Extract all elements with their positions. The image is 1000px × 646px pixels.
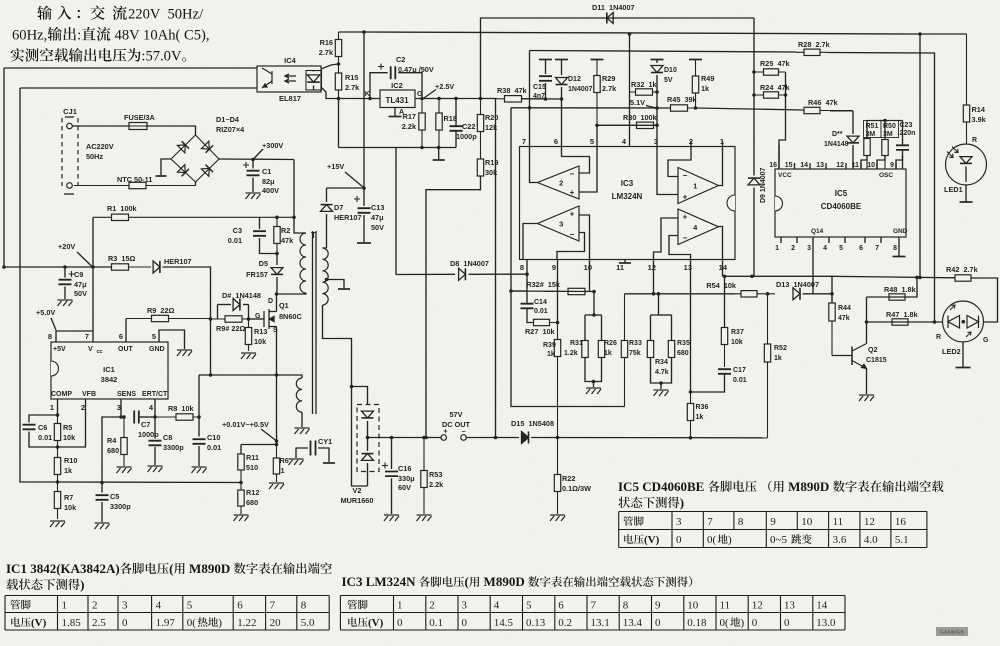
capacitor CY1: [311, 441, 316, 456]
junction R34 loop: [657, 292, 661, 296]
capacitor C15 plates: [539, 76, 552, 81]
svg-text:0(: 0(: [720, 617, 730, 629]
junction R5/C6/VFB: [56, 445, 60, 449]
wire: [254, 149, 264, 159]
LED1 chip: [960, 157, 972, 164]
svg-text:1k: 1k: [64, 466, 73, 475]
wire: [828, 237, 830, 243]
svg-text:11: 11: [852, 162, 860, 169]
resistor R54 10k: [735, 293, 775, 295]
transformer core: [313, 231, 317, 414]
terminal R49 top: [689, 59, 702, 61]
svg-text:7: 7: [85, 332, 89, 341]
capacitor C7 1000p: [134, 411, 139, 424]
title text line 1: [37, 6, 52, 20]
wire: [691, 374, 725, 392]
svg-text:6: 6: [859, 245, 863, 252]
svg-text:+300V: +300V: [262, 141, 283, 150]
svg-text:50V: 50V: [371, 223, 384, 232]
wire: [844, 237, 846, 243]
node K column: [337, 97, 341, 101]
junction sense riser: [494, 436, 498, 440]
svg-text:0.01: 0.01: [207, 443, 221, 452]
svg-text:FR157: FR157: [246, 270, 268, 279]
diode D5 FR157: [271, 268, 283, 275]
wire: [339, 147, 457, 149]
wire: [396, 273, 455, 275]
svg-text:HER107: HER107: [164, 257, 192, 266]
svg-text:EL817: EL817: [279, 94, 301, 103]
ground under R6: [269, 483, 284, 489]
svg-text:Q1: Q1: [279, 301, 289, 310]
junction R32/D10: [655, 90, 659, 94]
svg-text:10k: 10k: [63, 433, 76, 442]
svg-text:48V 10Ah( C5),: 48V 10Ah( C5),: [111, 28, 210, 44]
junction ground stub: [437, 146, 441, 150]
wire: [352, 387, 368, 487]
svg-text:0.01: 0.01: [38, 433, 52, 442]
wire: [327, 187, 365, 189]
svg-text:TL431: TL431: [385, 96, 409, 105]
svg-text:R49: R49: [701, 74, 714, 83]
junction secondary tap: [325, 278, 329, 282]
wire: [876, 163, 878, 169]
wire: [276, 277, 278, 294]
svg-text:D12: D12: [568, 76, 581, 83]
svg-text:R34: R34: [655, 359, 668, 366]
diode D13 1N4007: [793, 288, 800, 300]
svg-text:11: 11: [720, 600, 731, 612]
diode V2a MUR1660: [362, 411, 374, 418]
svg-text:R27 10k: R27 10k: [525, 327, 556, 336]
op-amp IC3-1: [678, 168, 719, 204]
wire: [669, 236, 691, 260]
wire: [530, 147, 538, 183]
svg-text:M890D: M890D: [785, 479, 833, 494]
svg-text:1: 1: [50, 403, 54, 412]
wire: [624, 260, 626, 263]
wire: [4, 67, 257, 69]
resistor R12 680: [240, 483, 242, 515]
diode D** 1N4148: [847, 136, 859, 143]
wire: [217, 305, 219, 320]
V2 module dashed outline: [357, 405, 379, 472]
svg-text:R8 10k: R8 10k: [168, 404, 194, 413]
resistor R36 1k: [690, 392, 692, 438]
wire: [72, 125, 80, 127]
svg-text:12: 12: [648, 263, 656, 272]
wire: [154, 447, 156, 465]
wire: [589, 260, 591, 292]
wire: [218, 304, 232, 306]
svg-text:510: 510: [246, 463, 258, 472]
svg-text:R53: R53: [429, 470, 442, 479]
node G: [420, 97, 424, 101]
wire: [809, 163, 811, 169]
svg-text:3842: 3842: [101, 375, 118, 384]
wire: [394, 108, 396, 117]
diode D12: [556, 78, 568, 85]
svg-text:3: 3: [559, 220, 563, 229]
svg-text:5.1V: 5.1V: [630, 98, 645, 107]
ground under C9: [58, 300, 73, 306]
svg-text:9: 9: [552, 263, 556, 272]
svg-text:COMP: COMP: [51, 391, 72, 398]
wire: [199, 375, 302, 378]
capacitor C17 0.01: [718, 369, 731, 374]
resistor R10 1k: [57, 447, 59, 482]
diode V2b MUR1660: [362, 454, 374, 461]
dashed connector outline: [62, 118, 78, 186]
svg-text:8: 8: [738, 516, 744, 528]
svg-text:0.01: 0.01: [534, 308, 548, 315]
wire: [120, 399, 122, 417]
wire: [898, 243, 900, 256]
svg-text:R13: R13: [254, 327, 267, 336]
svg-text:C7: C7: [141, 420, 150, 429]
svg-text:50Hz: 50Hz: [86, 152, 103, 161]
svg-text:11: 11: [616, 263, 624, 272]
svg-text:1: 1: [281, 466, 285, 475]
wire: [651, 358, 672, 383]
wire: [3, 68, 5, 267]
svg-text:D11 1N4007: D11 1N4007: [592, 3, 635, 12]
wire: [660, 383, 662, 389]
wire: [656, 92, 658, 125]
svg-text:OSC: OSC: [879, 172, 893, 179]
wire: [154, 399, 156, 417]
resistor R44 47k: [831, 294, 833, 356]
wire: [92, 267, 94, 342]
svg-text:1: 1: [775, 245, 779, 252]
wire: [753, 18, 755, 176]
wire: [651, 294, 659, 315]
wire: [778, 163, 780, 169]
wire: [154, 417, 156, 438]
terminal CJ1 neutral: [67, 183, 73, 189]
wire: [363, 188, 365, 206]
wire: [101, 483, 103, 493]
svg-text:D8 1N4007: D8 1N4007: [450, 259, 489, 268]
op-amp IC3-2: [538, 166, 580, 199]
svg-text:+: +: [570, 210, 575, 219]
bridge diode D1: [177, 145, 185, 153]
wire: [561, 60, 563, 76]
wire: [719, 227, 723, 260]
wire: [398, 73, 422, 99]
svg-text:8: 8: [301, 600, 307, 612]
wire: [125, 319, 127, 343]
svg-text:R28 2.7k: R28 2.7k: [798, 40, 831, 49]
svg-text:47μ: 47μ: [74, 280, 87, 289]
wire: [866, 369, 868, 395]
wire: [77, 252, 92, 267]
resistor R22 0.1/3W: [557, 438, 559, 515]
svg-text:2: 2: [81, 403, 85, 412]
wire: [352, 387, 368, 405]
wire: [92, 217, 94, 267]
IC1 notch: [51, 361, 59, 376]
wire: [545, 83, 547, 99]
terminal bottom rail: [433, 159, 445, 161]
junction R53: [422, 436, 426, 440]
wire: [338, 99, 340, 148]
junction D9 column: [750, 275, 754, 279]
resistor R45 39k: [657, 107, 696, 109]
svg-text:R22: R22: [562, 474, 575, 483]
junction C15: [544, 97, 548, 101]
cell 管脚: [10, 600, 30, 610]
wire: [867, 321, 944, 323]
svg-text:VCC: VCC: [778, 172, 792, 179]
terminal underline: [64, 193, 74, 195]
svg-text:R26: R26: [604, 340, 617, 347]
IC3 voltage table: [340, 596, 845, 631]
svg-text:3: 3: [676, 516, 682, 528]
capacitor C2 0.47u/50V: [391, 66, 396, 79]
wire: [860, 163, 862, 169]
svg-text:1.97: 1.97: [156, 617, 176, 629]
resistor R3 15: [112, 266, 152, 268]
svg-text:680: 680: [246, 498, 258, 507]
svg-text:IC5: IC5: [835, 189, 848, 198]
wire: [321, 87, 338, 99]
junction R30 left: [595, 124, 599, 128]
svg-text:R1 100k: R1 100k: [107, 204, 138, 213]
svg-text:3.9k: 3.9k: [972, 115, 987, 124]
svg-text:R18: R18: [444, 114, 457, 123]
wire: [511, 107, 671, 109]
svg-text:R20: R20: [485, 113, 498, 122]
svg-text:7: 7: [270, 600, 276, 612]
svg-text:GND: GND: [893, 228, 908, 235]
svg-text:7: 7: [522, 137, 526, 146]
wire: [753, 188, 755, 277]
resistor R42 2.7k: [955, 277, 971, 279]
bridge diode D3b: [177, 165, 185, 173]
svg-text:+5.0V: +5.0V: [36, 308, 55, 317]
junction top rail riser: [918, 276, 922, 280]
wire: [585, 358, 602, 382]
svg-text:6: 6: [554, 137, 558, 146]
svg-text:R: R: [936, 334, 941, 341]
svg-text:D10: D10: [664, 67, 677, 74]
svg-text:R17: R17: [403, 112, 416, 121]
junction R52: [766, 292, 770, 296]
wire: [861, 156, 867, 170]
node 5.1V: [655, 106, 659, 110]
svg-text:13: 13: [816, 162, 824, 169]
svg-text:2: 2: [791, 245, 795, 252]
svg-text:7: 7: [707, 516, 713, 528]
svg-text:330μ: 330μ: [398, 474, 415, 483]
svg-text:V2: V2: [353, 486, 362, 495]
svg-text:8: 8: [893, 245, 897, 252]
IC4 internal LED: [307, 75, 319, 82]
svg-text:13.0: 13.0: [816, 617, 836, 629]
resistor R29 2.7k: [596, 60, 598, 126]
wire: [64, 267, 66, 278]
resistor R2 47k: [276, 217, 278, 253]
resistor R1 100k: [93, 216, 294, 218]
IC3 LM324N body: [520, 147, 736, 260]
wire: [780, 237, 782, 243]
wire: [779, 72, 786, 169]
LED2 arrows: [950, 305, 971, 337]
svg-text:1000p: 1000p: [456, 132, 477, 141]
svg-text:R29: R29: [602, 74, 615, 83]
junction C22: [454, 97, 458, 101]
svg-text:2.7k: 2.7k: [345, 83, 360, 92]
transformer secondary winding: [323, 248, 329, 305]
resistor R26 1k: [601, 340, 603, 358]
svg-text:15: 15: [785, 162, 793, 169]
resistor R38 47k: [497, 98, 546, 100]
svg-text:0: 0: [784, 617, 790, 629]
capacitor C8 3300p: [149, 441, 162, 446]
wire: [57, 399, 59, 415]
svg-text:V: V: [88, 346, 93, 353]
wire: [326, 188, 328, 202]
wire: [276, 254, 278, 266]
wire: [596, 125, 598, 146]
wire: [656, 60, 658, 64]
svg-text:C1: C1: [262, 167, 271, 176]
svg-text:R39: R39: [543, 342, 556, 349]
wire: [832, 355, 852, 357]
resistor R9 22: [126, 318, 211, 320]
wire: [597, 124, 657, 126]
wire: [971, 278, 998, 322]
svg-text:2: 2: [429, 600, 435, 612]
transformer aux winding: [296, 378, 302, 412]
svg-text:10: 10: [867, 162, 875, 169]
zener D10: [651, 66, 663, 73]
resistor R5 10k: [57, 415, 59, 447]
svg-text:R33: R33: [629, 340, 642, 347]
junction R32#/R31 loop: [592, 290, 596, 294]
secondary tap terminal: [338, 288, 350, 290]
terminal R29 top: [591, 59, 604, 61]
svg-text:C13: C13: [371, 203, 384, 212]
svg-text:5.0: 5.0: [301, 617, 315, 629]
svg-text:1000p: 1000p: [138, 430, 159, 439]
svg-text:6: 6: [558, 600, 564, 612]
wire: [210, 319, 212, 375]
svg-text:0.13: 0.13: [526, 617, 546, 629]
wire: [511, 290, 594, 293]
cell 电压(V): [624, 534, 643, 544]
svg-text:R15: R15: [345, 73, 358, 82]
junction R16/R15/IC4: [337, 62, 341, 66]
wire: [523, 224, 538, 260]
wire: [313, 86, 315, 91]
resistor R4 680: [123, 417, 125, 466]
wire: [313, 71, 315, 72]
wire: [796, 237, 798, 243]
bridge diode D4b: [201, 168, 209, 176]
wire: [363, 215, 365, 242]
capacitor C6 0.01: [23, 425, 36, 430]
bridge left terminal bar: [156, 175, 167, 177]
wire: [395, 148, 397, 275]
wire: [219, 158, 294, 161]
svg-text:R31: R31: [570, 340, 583, 347]
junction R24/R25 right: [784, 93, 788, 97]
wire: [147, 126, 196, 135]
svg-text:R52: R52: [774, 345, 787, 352]
svg-text:0(: 0(: [707, 534, 717, 546]
wire: [812, 243, 814, 294]
svg-text:8N60C: 8N60C: [279, 312, 302, 321]
svg-text:47μ: 47μ: [371, 213, 384, 222]
svg-text:R9# 22Ω: R9# 22Ω: [216, 324, 246, 333]
svg-text:14: 14: [800, 162, 808, 169]
svg-text:−: −: [683, 234, 688, 243]
svg-text:C16: C16: [398, 464, 411, 473]
node +15V: [362, 186, 366, 190]
svg-text:3.6: 3.6: [833, 534, 847, 546]
svg-text:0: 0: [655, 617, 661, 629]
junction R2/C3/D5: [275, 252, 279, 256]
svg-text:M890D: M890D: [186, 561, 234, 576]
svg-text:Q2: Q2: [868, 347, 877, 354]
wire: [601, 315, 603, 340]
resistor R13 10k: [248, 319, 250, 351]
wire: [530, 51, 797, 53]
junction R2/C3 top: [275, 216, 279, 220]
svg-text:D**: D**: [832, 131, 843, 138]
wire: [557, 260, 559, 323]
wire: [367, 438, 369, 452]
svg-text:G: G: [255, 313, 261, 320]
svg-text:R9 22Ω: R9 22Ω: [147, 306, 174, 315]
svg-text:680: 680: [677, 350, 689, 357]
ground under C16: [384, 515, 399, 521]
wire: [625, 293, 736, 295]
resistor R37 10k: [724, 327, 726, 367]
wire: [260, 238, 278, 254]
diode D3 HER107: [153, 261, 160, 273]
diode D7 HER107: [321, 205, 333, 212]
svg-text:5V: 5V: [664, 77, 673, 84]
bridge rectifier D1-D4: [171, 135, 219, 182]
wire: [161, 159, 171, 175]
junction R22: [556, 436, 560, 440]
svg-text:1.22: 1.22: [237, 617, 256, 629]
svg-text:R7: R7: [64, 493, 73, 502]
svg-text:10: 10: [584, 263, 592, 272]
resistor R18 12k: [438, 99, 440, 148]
resistor R27 10k: [527, 322, 558, 324]
ground Q2 emitter: [859, 395, 874, 401]
svg-text:12k: 12k: [485, 123, 498, 132]
wire: [249, 318, 265, 320]
IC4 phototransistor: [262, 68, 272, 88]
svg-text:7: 7: [591, 600, 597, 612]
svg-text:C9: C9: [74, 270, 83, 279]
wire: [584, 315, 586, 340]
wire: [252, 178, 254, 193]
resistor R25 47k: [754, 71, 786, 73]
wire: [139, 416, 155, 418]
wire: [629, 34, 631, 147]
svg-text:): ): [728, 534, 732, 546]
wire: [866, 297, 868, 344]
wire: [690, 141, 692, 147]
optocoupler IC4 EL817 body: [257, 66, 321, 92]
svg-text:10k: 10k: [254, 337, 267, 346]
